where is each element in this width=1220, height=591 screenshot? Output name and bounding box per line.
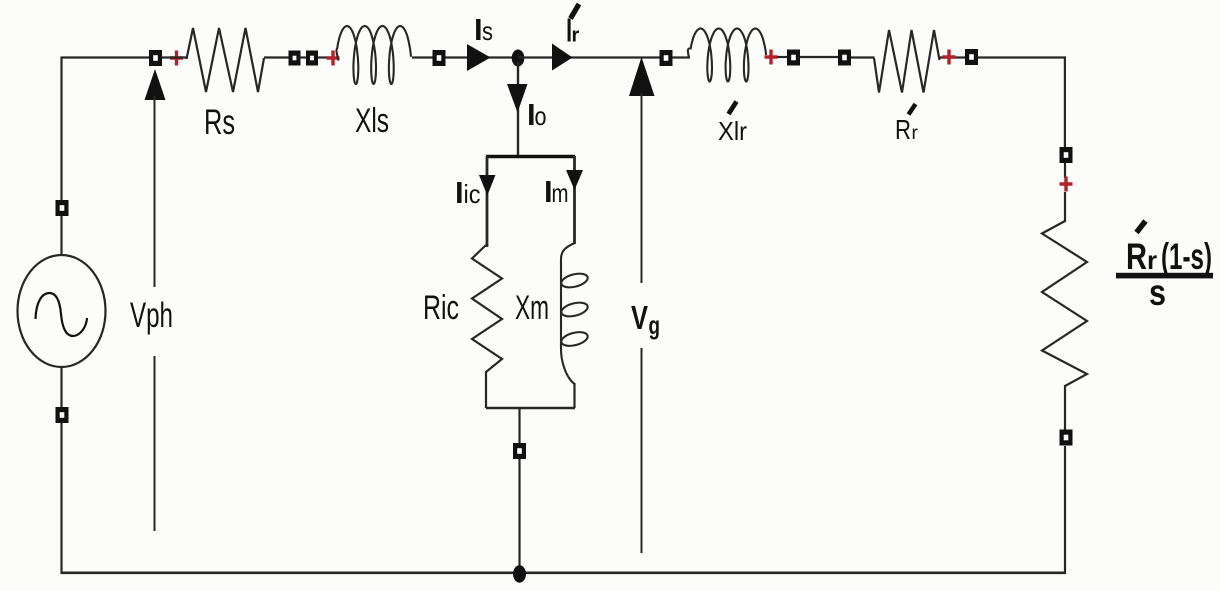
terminal T7	[838, 50, 851, 66]
terminal T6	[787, 50, 800, 66]
wire source bottom to terminal	[60, 366, 62, 407]
terminal T11	[513, 443, 526, 459]
arrow Ir'	[552, 44, 573, 71]
wire Rs to terminals	[264, 56, 290, 58]
svg-text:r: r	[572, 25, 580, 47]
wire T5 to Xlr	[672, 56, 690, 58]
resistor Rs zigzag	[187, 28, 265, 92]
junction node top	[512, 50, 525, 67]
shunt bottom bar	[486, 407, 575, 410]
svg-text:R: R	[1126, 236, 1147, 277]
terminal T2	[289, 51, 301, 66]
wire Rr to plus	[940, 56, 966, 58]
wire Xls to T4	[412, 56, 433, 58]
resistor Ric zigzag	[472, 245, 502, 372]
wire bottom bus	[61, 571, 1067, 574]
Vg line upper	[641, 93, 643, 283]
terminal T1	[149, 50, 162, 66]
wire T10 to bottom	[1064, 446, 1066, 573]
arrow Iic	[479, 175, 496, 196]
terminal source top	[56, 200, 69, 216]
inductor Xls coil	[336, 26, 411, 84]
wire T4 to node	[445, 56, 512, 58]
svg-text:I: I	[455, 175, 464, 210]
shunt top bar	[486, 155, 575, 159]
wire bar to T11	[518, 408, 520, 443]
wire shunt right upper	[573, 156, 576, 244]
svg-text:Vph: Vph	[130, 296, 173, 335]
svg-text:Xls: Xls	[355, 102, 389, 140]
prime of fraction Rr	[1137, 221, 1146, 233]
svg-text:(1-s): (1-s)	[1161, 236, 1212, 277]
svg-text:o: o	[535, 101, 547, 131]
svg-text:Rs: Rs	[204, 103, 235, 142]
wire Xm to bottom bar	[573, 383, 575, 408]
svg-text:s: s	[1149, 272, 1166, 313]
wire T7 to Rr	[851, 56, 875, 58]
wire T1 to Rs	[162, 56, 187, 58]
arrow Im	[566, 170, 583, 190]
wire T3 to plus	[318, 56, 330, 58]
Vg line lower	[641, 348, 643, 553]
svg-text:Xm: Xm	[515, 289, 549, 327]
wire T9 to plus	[1064, 163, 1066, 178]
terminal source bottom	[56, 407, 69, 423]
inductor Xm loop 1	[560, 271, 589, 290]
wire T8 to right corner	[978, 58, 1065, 149]
svg-text:ic: ic	[464, 179, 481, 209]
terminal T8	[965, 49, 978, 65]
plus mark near Rs	[170, 51, 183, 66]
svg-text:r: r	[1147, 245, 1157, 275]
resistor Rr'(1-s)/s zigzag	[1042, 221, 1087, 386]
inductor Xm loop 3	[560, 330, 589, 349]
svg-text:V: V	[631, 299, 648, 336]
AC source sine wave	[36, 293, 88, 336]
AC source circle	[18, 255, 106, 367]
wire node to Io	[517, 62, 519, 156]
Vph line upper	[154, 96, 156, 287]
wire shunt left upper	[486, 156, 489, 247]
svg-text:g: g	[649, 310, 661, 340]
junction node bottom	[513, 565, 526, 582]
terminal T4	[433, 50, 446, 66]
prime of Ir	[571, 4, 580, 19]
svg-text:Xlr: Xlr	[718, 116, 747, 146]
plus mark near Rr	[943, 50, 956, 65]
prime of Rr label	[909, 104, 916, 115]
wire plus to T6	[777, 56, 787, 58]
svg-text:r: r	[912, 123, 919, 144]
arrow Vph head	[145, 69, 166, 100]
wire T11 to bottom node	[518, 459, 520, 570]
plus mark near Xlr	[765, 50, 778, 65]
wire plus to Rload	[1064, 192, 1066, 222]
wire Ric to bottom bar	[485, 371, 487, 408]
wire between T2 T3	[299, 56, 307, 58]
plus mark right branch	[1060, 177, 1073, 192]
prime of Xlr label	[729, 102, 737, 115]
wire Rload to T10	[1064, 385, 1066, 430]
plus mark near Xls	[327, 51, 340, 66]
svg-text:m: m	[552, 178, 569, 208]
wire left vertical lower	[60, 423, 62, 573]
fraction bar	[1116, 273, 1213, 279]
terminal T10	[1060, 430, 1073, 446]
inductor Xm spine	[561, 243, 575, 384]
resistor Rr' zigzag	[874, 30, 940, 93]
svg-text:Ric: Ric	[423, 289, 459, 327]
terminal T9	[1060, 147, 1073, 163]
inductor Xlr' coil	[688, 29, 766, 82]
svg-text:s: s	[482, 16, 493, 46]
terminal T5	[660, 50, 673, 66]
terminal T3	[306, 51, 318, 66]
wire top-left horizontal	[62, 56, 150, 58]
wire left vertical upper	[60, 57, 62, 201]
svg-text:R: R	[895, 114, 911, 145]
wire T6 to T7	[800, 56, 839, 58]
arrow Io	[507, 84, 528, 113]
arrow Is	[467, 44, 491, 71]
arrow Vg head	[629, 57, 655, 96]
wire node to T5	[518, 56, 660, 58]
Vph line lower	[154, 356, 156, 531]
inductor Xm loop 2	[560, 300, 589, 319]
wire terminal to source top	[60, 216, 62, 256]
